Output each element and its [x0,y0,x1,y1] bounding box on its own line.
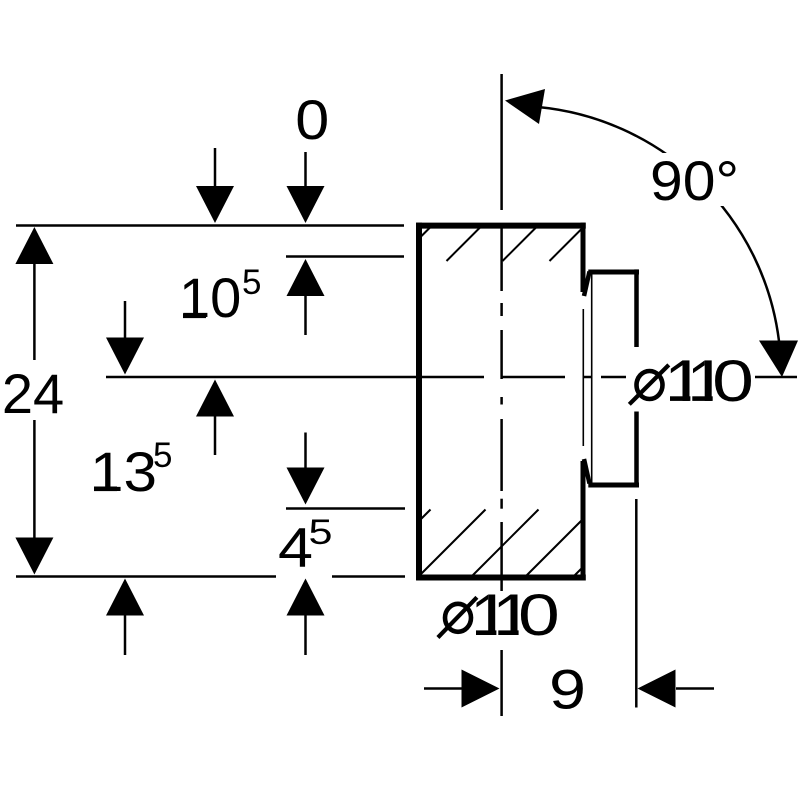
svg-text:90°: 90° [650,149,739,212]
svg-text:0: 0 [518,583,560,648]
svg-text:13: 13 [90,440,157,503]
svg-text:5: 5 [242,263,261,302]
svg-text:5: 5 [153,436,172,475]
svg-text:10: 10 [179,266,241,329]
svg-text:0: 0 [712,349,754,414]
svg-text:24: 24 [2,362,64,425]
svg-text:5: 5 [309,513,333,552]
svg-text:0: 0 [295,88,329,151]
svg-text:9: 9 [549,658,586,721]
